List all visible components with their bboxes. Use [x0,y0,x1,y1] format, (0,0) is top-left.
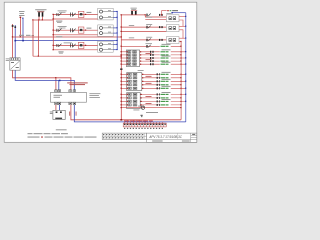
junction with long blue [116,40,117,41]
wire mid red bus y56.2 [33,55,122,57]
wire blue bottom bus [74,105,186,122]
block B right rows [142,74,186,88]
junctions B right [180,77,181,85]
junction long red / P2 [12,36,13,37]
terminal strip X1 [123,123,166,127]
horn symbol [141,106,144,109]
label above contact S3 [64,41,72,44]
label row3 bus side [129,36,134,39]
red note text above unit box [67,82,88,85]
rung 2 wire [53,29,97,31]
wire elbow down to row1 [145,15,166,17]
rung 3 return wire [53,49,97,51]
wire red right bus vertical [180,42,182,120]
notes line 1 [28,133,68,134]
junction long red / P1 [20,36,21,37]
junction [121,14,122,15]
wire M3 out top [179,37,186,39]
notes line 2 [28,137,97,138]
node dot P1 red top [20,17,22,18]
wire red secondary [13,70,71,90]
rung 3 wire [53,44,97,46]
wire red tap to box [55,78,57,90]
junctions A right [180,54,181,61]
label above long red [19,35,34,36]
label row2 [146,23,152,26]
vertical wire tags near risers [69,112,76,116]
fuse F1 label [35,9,46,11]
unit box A1 [51,92,87,102]
connector block B [127,73,142,91]
junction [53,14,54,15]
coil K1 [71,13,73,17]
junction [121,26,122,27]
module row2 lower wire [121,31,166,33]
wire blue lamp bus vertical [116,12,118,50]
wire ladder bus vertical [52,15,54,50]
terminal pads top of unit box [55,90,76,93]
meter P1 box [53,110,65,119]
wire red bottom bus [71,105,181,120]
connector sym row1 [159,14,163,16]
label row1 [146,16,152,19]
fuse F1 body [38,11,44,13]
lamp box H2 [98,25,114,37]
junction [53,18,54,19]
horn row y107.7 [121,107,181,109]
title block [147,133,197,142]
label above contact S1 [58,10,67,12]
green tag [160,45,171,47]
connector block A [126,50,139,67]
wire top feed y14.9 [121,14,145,16]
transformer T1 terminal strip [10,58,20,61]
module row3 lower wire [121,39,166,41]
junction [59,80,61,82]
node L label text top-left [19,11,25,16]
connector sym row2 [159,26,163,28]
title small marks [152,141,162,142]
transformer T1 label left [6,58,9,61]
coil K3 [71,43,73,47]
connector block C [127,93,141,109]
wire feed bus y20 [33,19,53,21]
contact [147,45,151,48]
green tags C [160,92,171,106]
junction blue at drop start [145,121,146,122]
fuse F2 label [131,8,137,10]
numbers row below strip [124,128,163,129]
text under horn row [146,112,158,113]
label row2 bus side [129,24,134,27]
signal row y46.3 [121,45,181,47]
junction rung1 [85,14,86,15]
lamp box H1 [98,8,114,20]
wire fuse right pole down [42,17,44,20]
contact row3 [147,38,151,41]
junction mid red end [121,56,122,57]
wire blue stubs H1 [113,11,117,13]
terminal numbers inside strip [124,124,166,126]
label 105 [87,12,92,13]
label under rung1 [56,21,62,22]
wire drop x38.5 [38,20,40,56]
junction long blue / P1 [22,40,24,42]
block C right rows [140,94,186,105]
switch tick on P2 blue [14,26,16,28]
wire red drop P1 [19,17,21,37]
symbols B [157,73,161,89]
junction rung3 [85,45,86,46]
junction [53,30,54,31]
device box rung2 [78,27,84,33]
block B left stubs [121,74,126,88]
label below block C [133,109,139,112]
junction long blue / P2 [14,40,16,42]
junction rung2 [85,30,86,31]
block C edge dots [140,94,141,106]
contact row1 on feed [147,13,151,16]
wire blue to meter [58,105,60,111]
wire blue tap to box [58,80,60,89]
wire blue secondary [15,70,74,90]
green tags B [160,72,171,90]
label row3 [146,36,152,39]
block C left edge dots [127,94,128,106]
label above contact S2 [58,26,67,28]
contact row2 [147,26,151,29]
transformer T1 body [10,60,20,70]
red wire number tags above bottom bus [124,120,153,123]
wire long blue bus y40.6 [15,40,117,42]
module box M1 [166,15,179,22]
contact S2 [57,29,62,32]
red wire number texts left of symbols [146,53,152,104]
rung 1 return wire [53,18,97,20]
module row2 upper wire [121,26,166,28]
block A edge dots [140,51,141,65]
module box M2 [166,25,179,32]
junction bottom [120,119,122,121]
symbols C [157,93,161,106]
wire M3 out bottom [179,41,181,43]
wire main right red bus vertical [120,15,122,120]
wire drop x33 [32,20,34,56]
node dot P1 blue top [22,18,23,19]
wire blue right bus vertical [185,13,187,122]
ground marks [141,115,143,117]
junction [53,34,54,35]
wire red drop P2 to transformer [12,24,14,58]
coil K2 [71,28,73,32]
symbols A [150,51,154,65]
label above block B [138,69,144,72]
terminal strip X1 drops [125,120,163,123]
junction [53,49,54,50]
net label top right [167,10,169,11]
device box rung3 [78,42,84,48]
block A left edge dots [127,51,128,64]
block C left stubs [121,94,126,105]
block A left stubs [121,52,126,64]
connector sym row3 [159,39,163,41]
junction [55,77,56,78]
lamp box H3 [98,41,114,52]
junction [121,31,122,32]
label left of meter [50,112,53,114]
rung 1 wire [53,14,97,16]
contact S3 [57,44,62,47]
wire blue stubs H3 [113,43,117,45]
wire red riser to label [162,11,167,15]
terminal pads bottom of unit box [55,102,76,105]
junction dots red bus at crossing rows [180,51,181,102]
unit box text [54,95,63,98]
label left of horn [138,105,144,108]
junctions C right [180,97,181,105]
contact S1 [57,13,62,16]
wire long red bus y37 [13,36,122,38]
wire blue stub top [172,12,186,14]
junction mid bus [38,56,39,57]
svg-text:APV 75.3-7 17.5/10В-3С: APV 75.3-7 17.5/10В-3С [149,135,183,139]
junction [53,45,54,46]
wire blue drop P1 [22,18,24,41]
label 106 [87,28,92,29]
notes short line [56,129,67,130]
page sheet [0,0,200,145]
block B edge dots [142,74,143,89]
wire M1 out top [179,16,186,18]
wire M1 out bottom link [179,20,183,26]
terminal list table [102,133,146,139]
label under rung3 [58,51,63,52]
junction long red end [121,36,122,37]
label right of unit box [89,93,100,98]
label above box M1 [166,12,171,15]
green tags A [160,49,171,65]
module box M3 [166,37,179,44]
rung 2 return wire [53,34,97,36]
wire M2 out top [179,25,186,27]
switch tick on P2 red [12,25,14,27]
junctions on feed bus [32,19,33,20]
module row1 lower wire [145,19,166,21]
wire blue stubs H2 [113,27,117,29]
block B left edge dots [127,74,128,89]
label under rung2 [56,36,62,37]
block A right rows [140,52,186,64]
wire red to meter [55,105,57,111]
wire fuse left pole down [38,17,40,20]
wire blue drop P2 to transformer [14,25,16,58]
device box rung1 [78,11,84,17]
tick on bus [120,69,122,70]
wire M2 out bottom link [179,30,183,38]
fuse F2 body [131,10,137,12]
